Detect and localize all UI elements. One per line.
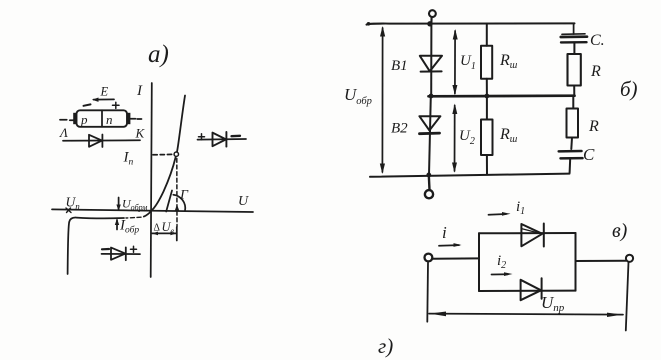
forward-biased diode symbol [198,132,247,147]
svg-text:в): в) [612,220,628,242]
svg-text:U: U [238,194,249,209]
forward V-A curve [152,96,186,211]
svg-text:К: К [135,126,146,141]
wire anode lead [60,119,77,122]
I axis [151,83,152,277]
wire bottom rail [370,174,570,177]
Uobrm arrow [116,198,120,212]
svg-text:I: I [136,83,143,99]
svg-text:Rш: Rш [499,126,518,145]
wire top rail [367,23,575,24]
svg-text:R: R [588,118,599,135]
angle arc [173,195,185,211]
U axis [52,209,253,212]
svg-text:В1: В1 [391,58,408,74]
svg-text:Rш: Rш [499,52,518,71]
left terminal [425,254,433,262]
svg-text:г): г) [378,334,393,358]
plus above n [113,102,120,108]
capacitor C2 [559,151,583,173]
bottom terminal [425,175,433,198]
minus above p [84,104,91,105]
svg-text:Е: Е [100,85,109,99]
resistor Rsh1 [481,24,492,96]
Upr measure arrow [429,312,623,318]
U1 measure arrow [452,29,457,95]
node operating point [174,152,178,156]
svg-text:U2: U2 [459,128,475,147]
svg-text:i1: i1 [516,199,525,217]
capacitor C1 [561,34,587,54]
svg-text:Г: Г [179,188,189,203]
wire right column top [573,23,575,34]
svg-text:n: n [106,112,113,127]
i arrow [439,243,462,247]
right terminal [626,255,633,262]
tangent line [166,191,172,212]
node top junction [427,21,432,26]
diode VD1 symbol [89,135,102,148]
wire middle rail [429,94,575,97]
diode D1 [521,224,543,247]
wire parallel loop [479,233,576,291]
wire right feed [576,260,627,262]
reverse-biased diode symbol [102,246,141,260]
reverse V-A curve [144,211,151,216]
Iobr arrow [115,219,119,230]
dashed operating-point vertical [176,159,178,227]
wire diode branch [430,24,432,97]
svg-text:Iобр: Iобр [119,218,139,236]
dashed Ip level [153,153,173,155]
p-n structure box [73,110,130,127]
wire right drop [626,262,629,331]
diode D2 [521,278,542,300]
diode B2 [419,116,440,134]
wire cathode lead [130,118,141,120]
svg-text:i2: i2 [497,253,506,271]
Up tick [66,208,71,213]
svg-text:а): а) [148,41,169,68]
svg-text:Iп: Iп [123,150,134,168]
wire diode branch lower [429,96,431,175]
svg-text:Uобрм: Uобрм [122,197,147,213]
node bottom junction [426,173,431,178]
wire diode line [63,139,140,142]
svg-text:Uв: Uв [162,220,175,236]
arrowhead on axis [175,205,180,212]
svg-text:i: i [442,223,447,242]
svg-text:Λ: Λ [58,125,68,140]
E arrow [92,98,114,102]
resistor R1 [568,54,581,86]
top terminal [428,9,437,23]
Uobr measure arrow [380,26,385,174]
resistor R2 [567,96,579,149]
U2 measure arrow [452,104,457,173]
svg-text:б): б) [620,77,638,101]
node middle junction diode [429,94,434,99]
svg-text:C: C [583,145,595,164]
delta Uv measure arrows [152,227,177,241]
wire R1 to mid [573,86,575,96]
svg-text:В2: В2 [391,121,408,137]
wire left feed [432,257,479,259]
resistor Rsh2 [481,96,493,175]
i1 arrow [489,212,511,216]
i2 arrow [492,272,513,276]
wire left drop [426,263,429,322]
svg-text:R: R [590,63,601,80]
svg-text:Δ: Δ [154,223,161,234]
svg-text:U1: U1 [460,53,476,72]
svg-text:Uобр: Uобр [344,85,372,107]
svg-text:C.: C. [590,32,605,49]
svg-text:p: p [80,112,88,127]
svg-text:Uпр: Uпр [541,293,565,314]
diode B1 [420,56,442,72]
